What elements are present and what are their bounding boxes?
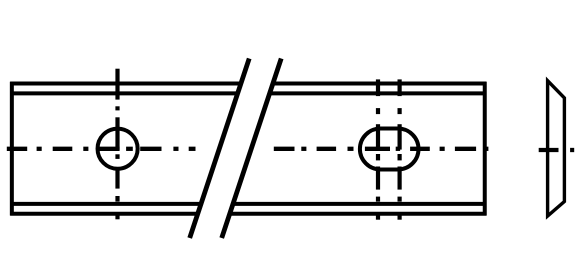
blade bottom outer edge [10, 212, 486, 216]
break line right [222, 59, 282, 239]
blade bottom inner chamfer line [10, 202, 486, 206]
blade top inner chamfer line [10, 91, 486, 95]
blade top outer edge [10, 82, 486, 86]
vertical centerline of hole H2, left arc center [376, 79, 380, 219]
break line left [190, 59, 250, 239]
horizontal centerline (side view) [539, 148, 575, 152]
side view blade profile [548, 81, 565, 216]
break gap (white strip between break lines) [190, 56, 282, 241]
hole H1 (round bore) [98, 129, 138, 169]
vertical centerline of hole H2, right arc center [398, 79, 402, 219]
blade right edge [483, 82, 487, 216]
blade left edge [10, 82, 14, 216]
horizontal centerline (main view) [7, 147, 489, 151]
vertical centerline of hole H1 [115, 69, 119, 220]
hole H2 (slotted bore) [360, 129, 419, 170]
